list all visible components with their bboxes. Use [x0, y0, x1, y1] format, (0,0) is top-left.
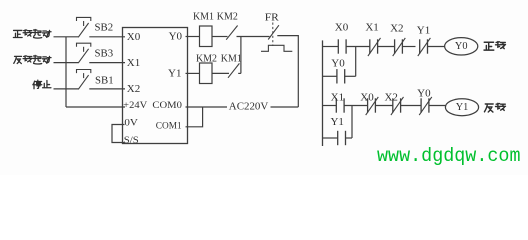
svg-text:0V: 0V — [124, 119, 138, 129]
svg-text:Y1: Y1 — [330, 116, 343, 128]
svg-text:COM1: COM1 — [156, 122, 182, 132]
svg-text:FR: FR — [265, 12, 280, 24]
svg-text:S/S: S/S — [124, 135, 139, 145]
svg-text:Y1: Y1 — [168, 68, 181, 80]
svg-text:Y0: Y0 — [169, 31, 183, 43]
svg-text:AC220V: AC220V — [229, 102, 269, 113]
svg-text:X1: X1 — [331, 92, 344, 104]
svg-text:KM1: KM1 — [193, 12, 214, 23]
svg-text:X1: X1 — [127, 57, 140, 69]
svg-text:Y1: Y1 — [456, 102, 469, 113]
svg-text:X0: X0 — [335, 22, 349, 34]
svg-text:KM2: KM2 — [217, 12, 238, 23]
svg-text:SB2: SB2 — [95, 22, 114, 34]
svg-text:X0: X0 — [127, 31, 141, 43]
svg-text:X2: X2 — [127, 83, 140, 95]
svg-text:KM1: KM1 — [221, 54, 242, 65]
svg-text:COM0: COM0 — [152, 101, 182, 111]
svg-text:Y0: Y0 — [331, 57, 345, 69]
svg-text:SB1: SB1 — [95, 74, 114, 86]
svg-text:SB3: SB3 — [95, 48, 114, 60]
svg-text:Y0: Y0 — [455, 41, 468, 52]
svg-text:X1: X1 — [365, 22, 378, 34]
svg-text:Y0: Y0 — [417, 87, 431, 99]
svg-text:X0: X0 — [360, 92, 374, 104]
svg-text:X2: X2 — [390, 23, 403, 35]
svg-text:X2: X2 — [384, 92, 397, 104]
svg-text:+24V: +24V — [123, 101, 147, 111]
svg-text:Y1: Y1 — [417, 24, 430, 36]
svg-text:KM2: KM2 — [196, 54, 217, 65]
svg-text:www.dgdqw.com: www.dgdqw.com — [377, 145, 521, 167]
